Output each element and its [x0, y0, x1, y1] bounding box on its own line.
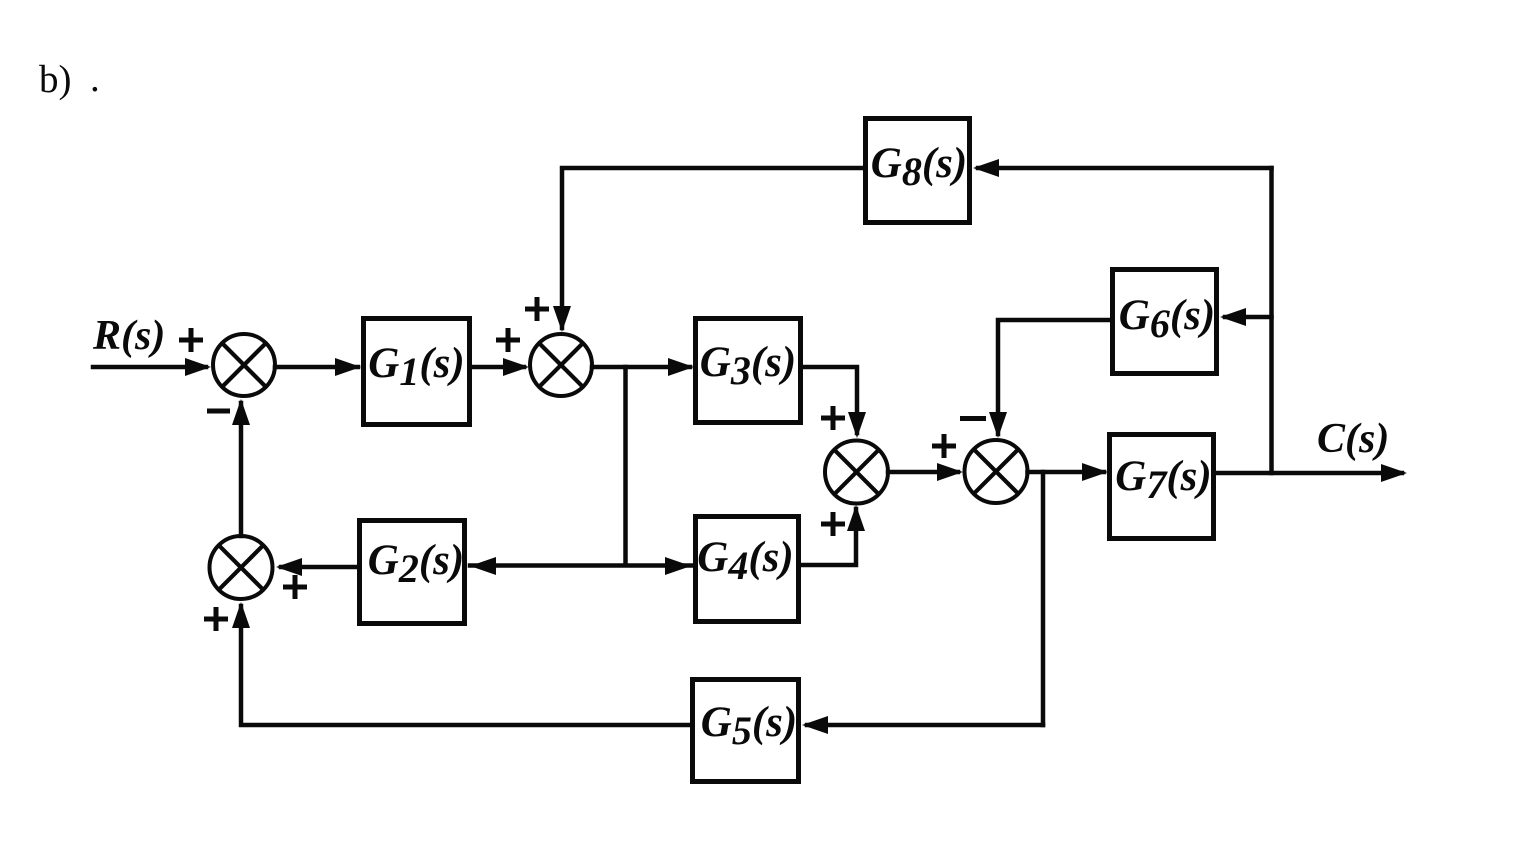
svg-text:G3(s): G3(s)	[700, 339, 796, 393]
svg-text:G6(s): G6(s)	[1119, 292, 1215, 346]
svg-text:G1(s): G1(s)	[368, 340, 464, 394]
svg-text:C(s): C(s)	[1317, 416, 1389, 462]
svg-text:b): b)	[39, 58, 72, 101]
svg-text:G8(s): G8(s)	[871, 140, 967, 194]
svg-text:.: .	[90, 57, 100, 100]
svg-text:G2(s): G2(s)	[368, 537, 464, 591]
svg-text:G5(s): G5(s)	[701, 699, 797, 753]
svg-text:G7(s): G7(s)	[1115, 453, 1211, 507]
svg-text:G4(s): G4(s)	[697, 534, 793, 588]
svg-text:R(s): R(s)	[92, 313, 165, 359]
